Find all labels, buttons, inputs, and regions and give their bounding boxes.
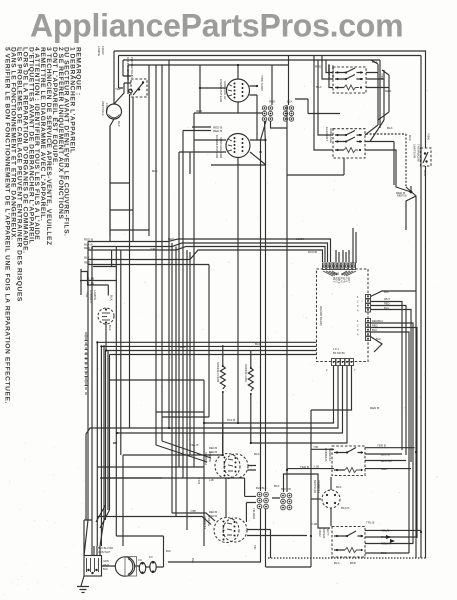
tiny marks above frame [10, 46, 78, 52]
wire box Q right wires [365, 530, 421, 553]
svg-text:YEL/B: YEL/B [381, 529, 390, 533]
svg-text:RED: RED [372, 324, 378, 328]
wire junction X fanout [406, 186, 416, 558]
svg-text:BLK: BLK [384, 290, 389, 294]
wire S2 right wires [250, 140, 266, 165]
svg-text:ELEMENT: ELEMENT [327, 64, 331, 78]
wire bus Y113 to grid TB1 [194, 113, 263, 467]
wire grid TB1 bottom feeds down [261, 121, 271, 491]
svg-text:COMMUTATEUR: COMMUTATEUR [215, 135, 219, 159]
svg-text:BLK: BLK [110, 295, 114, 301]
label M2 vertical [203, 516, 211, 529]
svg-text:1 1B: 1 1B [88, 277, 94, 281]
svg-text:BK RD BU: BK RD BU [333, 351, 345, 355]
wire stubs 1B to door switch [80, 269, 117, 296]
svg-text:Y/BK SURV: Y/BK SURV [260, 75, 264, 91]
wire bus S1 left to vertical [200, 87, 227, 89]
svg-text:TER B: TER B [377, 444, 386, 448]
connector P4 bottom row [332, 359, 354, 366]
svg-text:COMMUT.: COMMUT. [89, 290, 93, 304]
latch switch box O [332, 446, 365, 476]
wire switchbox F right wires [365, 112, 411, 192]
wire lock motor P vertical [330, 477, 332, 526]
svg-text:RED: RED [384, 302, 390, 306]
svg-text:7: 7 [354, 368, 356, 372]
wire bus B3 from terminal T1 [88, 247, 325, 263]
svg-text:RED B: RED B [84, 246, 93, 250]
wire lamp bottom down [110, 119, 114, 236]
connector P3 right column [366, 319, 371, 341]
svg-text:4: 4 [357, 309, 359, 313]
svg-text:BLK: BLK [103, 567, 108, 571]
wire protector verticals down [130, 94, 134, 428]
svg-text:Y/R: Y/R [150, 247, 156, 251]
wire board bottom D4 [251, 366, 347, 443]
junction X node [410, 191, 413, 194]
wire frame left segment to oven lamp [113, 51, 115, 104]
wire top bus N2 [123, 60, 380, 128]
arrow marks bottom right [386, 535, 395, 543]
svg-text:Y/B: Y/B [313, 445, 318, 449]
wire branch to terminal grid TB1 [271, 65, 273, 105]
svg-text:RED: RED [385, 89, 392, 93]
wire board fan feeds [336, 228, 356, 263]
label S2 vertical [213, 126, 223, 160]
terminal grid TB2 [283, 106, 293, 121]
svg-text:FOUR: FOUR [318, 528, 322, 537]
svg-text:FO: FO [149, 555, 153, 559]
svg-text:BLK: BLK [372, 60, 378, 64]
svg-text:BLU: BLU [384, 306, 389, 310]
terminal grid TB1 [262, 106, 272, 121]
svg-text:BLU BU: BLU BU [381, 459, 392, 463]
power connector PE bottom left [84, 556, 102, 577]
svg-text:NETT.: NETT. [326, 528, 330, 537]
wire mid vertical V162 [161, 65, 163, 441]
svg-text:VERROU: VERROU [328, 448, 332, 461]
svg-text:5 VERIFIER LE BON FONCTIONNEM: 5 VERIFIER LE BON FONCTIONNEMENT DE L'AP… [4, 47, 11, 404]
svg-text:RED/W: RED/W [381, 542, 391, 546]
svg-text:FOUR: FOUR [105, 103, 109, 112]
label protector vertical [126, 57, 134, 81]
svg-text:PROTECTEUR: PROTECTEUR [130, 57, 134, 79]
svg-text:3: 3 [357, 304, 359, 308]
svg-text:BLU: BLU [423, 170, 427, 176]
wire S2 bottom long vertical [237, 158, 239, 424]
label motor P [313, 480, 350, 510]
wire horiz y165 under S2 [211, 164, 266, 166]
wire right step to fuse [366, 134, 406, 187]
wire horiz y470 to latch box [284, 469, 335, 528]
wire branch to terminal grid TB2 [288, 56, 290, 106]
svg-text:AMPOULE: AMPOULE [101, 101, 105, 116]
svg-text:2: 2 [357, 300, 359, 304]
label motor cluster [138, 545, 257, 563]
switch box F (broil element relay) [333, 129, 365, 158]
svg-text:CUISSON: CUISSON [331, 65, 335, 79]
wire switchbox E left feeds [322, 56, 333, 88]
door latch switch M1 (dashed circles) [215, 454, 248, 479]
svg-text:ELEMENT: ELEMENT [325, 127, 329, 141]
svg-text:BLK: BLK [408, 135, 412, 141]
wire left verticals to T1 K [106, 126, 121, 536]
label M1 vertical [204, 452, 212, 465]
svg-text:FOUR: FOUR [101, 46, 105, 55]
latch switch box Q [332, 527, 365, 558]
svg-text:LOCK: LOCK [296, 237, 304, 241]
wire mid vertical V156 [155, 65, 157, 445]
svg-text:GRN: GRN [103, 559, 109, 563]
wire resistor R1 leads [123, 345, 223, 546]
infinite switch S2 (rear burner) [226, 134, 250, 158]
infinite switch S1 (front burner) [227, 79, 250, 102]
wire top bus N3 [128, 65, 289, 94]
svg-text:COMMUTATEUR: COMMUTATEUR [219, 79, 223, 103]
label box E vertical [315, 60, 392, 93]
door switch K (dashed circle) [98, 308, 114, 324]
label box F vertical [325, 126, 407, 198]
svg-text:AppliancePartsPros.com: AppliancePartsPros.com [30, 8, 403, 44]
svg-text:2: 2 [326, 368, 328, 372]
note text french remarque (rotated) [4, 47, 82, 404]
svg-text:B1B: B1B [381, 551, 387, 555]
svg-text:SUPER: SUPER [322, 528, 326, 539]
svg-text:YEL: YEL [115, 87, 121, 91]
svg-text:BLK: BLK [255, 342, 261, 346]
door latch switch M2 (dashed circles) [214, 518, 247, 543]
wire left bracket column [85, 332, 87, 395]
label power connector rows [98, 546, 113, 571]
svg-text:RED B: RED B [209, 446, 217, 450]
svg-text:RED B: RED B [209, 514, 217, 518]
wire bus B4 from terminal T1 [88, 250, 323, 262]
convection motor B1 [115, 557, 136, 577]
svg-text:WHT: WHT [103, 563, 109, 567]
wire frame top and right edge L1 [114, 51, 426, 558]
wire TB2 right Z-jog [295, 99, 340, 114]
wire mid vertical V179 [179, 152, 190, 467]
wire board bottom D5 to bottom right [311, 366, 352, 567]
label bus wire tags left [84, 238, 94, 298]
svg-text:RED B: RED B [84, 238, 93, 242]
label P4 pins [326, 347, 356, 372]
svg-text:SURFACE AV: SURFACE AV [223, 81, 227, 100]
svg-text:WHT: WHT [384, 297, 390, 301]
wire left stub y380 [110, 345, 210, 423]
sensor resistor R1 [220, 365, 225, 393]
svg-text:RED B: RED B [396, 191, 405, 195]
svg-text:MOTEUR: MOTEUR [313, 480, 317, 494]
svg-text:BLK: BLK [376, 337, 381, 341]
label P1 pin text block [332, 272, 339, 276]
capacitor C2 oval [150, 561, 156, 572]
wire y175 branch [287, 158, 344, 175]
wire bottom cluster feeds [92, 546, 100, 556]
svg-text:BLK: BLK [166, 549, 171, 553]
label box Q [311, 521, 391, 566]
wire oven lamp jog [114, 83, 131, 104]
svg-text:LAMPE: LAMPE [97, 46, 101, 56]
svg-text:CO: CO [138, 558, 142, 562]
wire bus C4 [110, 355, 317, 511]
wire jog TB1-TB2 [270, 127, 287, 129]
wire top bus N1 [119, 56, 422, 559]
svg-text:BLK: BLK [287, 100, 293, 104]
label S1 vertical [219, 79, 227, 103]
svg-text:o . . e o i: o . . e o i [10, 48, 23, 52]
svg-text:BLK: BLK [108, 325, 112, 331]
wire mid vertical V183 [101, 131, 244, 479]
thermal protector CO1 (dashed box with contacts) [129, 79, 147, 97]
svg-text:BLU: BLU [372, 328, 377, 332]
svg-text:OR 7: OR 7 [347, 277, 350, 283]
wire stub labels S2 upper left [192, 127, 211, 131]
wire latch M1 right to grid [226, 466, 280, 519]
svg-text:RED: RED [381, 467, 388, 471]
wire corner bus drop [93, 250, 116, 267]
wire bus B2 [92, 243, 328, 546]
wire board right P2 wires [371, 291, 417, 462]
svg-text:BLK BLK: BLK BLK [256, 486, 267, 490]
svg-text:BLK: BLK [387, 126, 393, 130]
svg-text:J 88: J 88 [190, 509, 196, 513]
svg-text:BLK BLU RD: BLK BLU RD [98, 546, 113, 550]
svg-text:RED: RED [315, 65, 322, 69]
svg-text:RED: RED [196, 109, 203, 113]
wire latch M2 right [247, 530, 307, 559]
svg-text:BLK: BLK [152, 169, 158, 173]
svg-text:J 1B: J 1B [313, 465, 319, 469]
wire grid G1 left links [245, 478, 256, 522]
svg-text:BLK Y/R: BLK Y/R [281, 487, 291, 491]
wire grid TB2 bottom long vertical [286, 105, 288, 492]
svg-text:Y/R: Y/R [253, 545, 257, 549]
wire frame bottom edge (dotted) [268, 557, 426, 559]
wire bottom-left risers [84, 345, 108, 556]
svg-text:Y/BK: Y/BK [380, 73, 384, 80]
wire mid drop verticals [172, 243, 190, 530]
wire bus B1 [84, 239, 331, 556]
svg-text:L1B: L1B [209, 478, 214, 482]
svg-text:BLK: BLK [180, 345, 186, 349]
wire mid-left horizontals [110, 183, 149, 230]
wire protector left stubs [119, 76, 132, 88]
wire latch box O right wires [311, 448, 415, 469]
svg-text:P10 B: P10 B [227, 418, 235, 422]
wire S1 bottom to bus [237, 102, 239, 113]
connector P2 right column [366, 295, 371, 313]
connector grid G1 bottom [257, 492, 268, 509]
svg-text:1: 1 [357, 295, 359, 299]
svg-text:RED B: RED B [213, 129, 222, 133]
lock motor P (dashed circle) [322, 490, 340, 508]
svg-text:J 1B: J 1B [311, 522, 317, 526]
svg-text:1 8 1: 1 8 1 [333, 347, 339, 351]
svg-text:BLK: BLK [316, 85, 322, 89]
label P3 pins [357, 319, 383, 341]
svg-text:RED B: RED B [370, 406, 379, 410]
label TB1 TB2 [260, 75, 293, 104]
control board U1 (dashed outline) [317, 269, 369, 362]
label board net names vertical [319, 306, 323, 327]
svg-text:BLK: BLK [117, 121, 121, 127]
wire mid vertical V169 [168, 60, 170, 428]
svg-text:VERROU: VERROU [203, 516, 207, 529]
oven lamp DEL1 [107, 104, 122, 119]
svg-text:BLK: BLK [334, 561, 340, 565]
svg-text:GRILLAGE: GRILLAGE [329, 128, 333, 143]
svg-text:B1B: B1B [350, 561, 356, 565]
wire motor chain [102, 566, 164, 567]
label P2 pins [357, 290, 390, 313]
svg-text:4: 4 [357, 333, 359, 337]
svg-text:COMMUT.: COMMUT. [324, 448, 328, 462]
wire resistor R2 leads [250, 350, 252, 443]
svg-text:VERROU: VERROU [204, 452, 208, 465]
label thermal fuse vertical [396, 133, 431, 195]
svg-text:BLK: BLK [274, 484, 280, 488]
svg-text:.:: .: [76, 46, 78, 50]
label R2 vertical [244, 364, 248, 383]
wire bus C3 [106, 351, 317, 521]
label box O [313, 444, 392, 472]
wire branch to switch S1 top [237, 65, 239, 79]
svg-text:SONDE FOUR: SONDE FOUR [216, 362, 220, 383]
svg-text:YEL/RED: YEL/RED [252, 508, 256, 519]
svg-text:BLK: BLK [84, 256, 90, 260]
svg-text:DOOR: DOOR [308, 250, 318, 254]
svg-text:RED/BLC: RED/BLC [372, 319, 383, 323]
svg-text:RED: RED [168, 237, 175, 241]
svg-text:7 8 B: 7 8 B [197, 478, 201, 484]
svg-text:RED: RED [84, 261, 91, 265]
svg-text:THERMIQUE: THERMIQUE [417, 144, 421, 162]
wire board bottom D1 [204, 366, 334, 546]
svg-text:Y/R: Y/R [85, 292, 89, 298]
wire bottom-left diagonals [96, 443, 204, 528]
wire bus C1 [97, 342, 316, 546]
svg-text:BLK: BLK [254, 452, 260, 456]
svg-text:RED B: RED B [209, 450, 217, 454]
svg-text:BLK: BLK [191, 558, 195, 563]
wire branch node to bake switch [199, 65, 201, 113]
wire latch M2 left [97, 513, 215, 525]
svg-text:VERROU: VERROU [317, 480, 321, 493]
svg-text:RED: RED [269, 100, 276, 104]
svg-text:COUPE-CIRCUIT: COUPE-CIRCUIT [126, 57, 130, 81]
wire bus C2 [101, 346, 316, 546]
label oven lamp [101, 101, 121, 127]
svg-text:YEL B: YEL B [190, 443, 198, 447]
svg-text:TRL B: TRL B [366, 521, 374, 525]
wire latch M1 left/top [156, 423, 223, 462]
thermal fuse TCO on frame [421, 148, 432, 166]
wire S2 left wires [190, 140, 226, 174]
svg-text:BLK: BLK [336, 485, 342, 489]
svg-text:TER B: TER B [300, 465, 309, 469]
wire P motor left [311, 498, 321, 500]
wire mid vertical V149 [148, 65, 150, 236]
wire switchbox F left feeds [314, 56, 333, 151]
label G1 G2 [197, 446, 291, 519]
svg-text:GRN WHT: GRN WHT [98, 550, 111, 554]
connector P1 top row [323, 263, 356, 270]
svg-text:RED B: RED B [209, 510, 217, 514]
label door switch [89, 290, 114, 331]
svg-text:1: 1 [357, 319, 359, 323]
svg-text:SURFACE ARR: SURFACE ARR [219, 137, 223, 159]
wire board bottom D2 [86, 366, 338, 520]
ground symbol [77, 576, 89, 593]
label wire tags scattered [97, 46, 379, 513]
switch box E (bake element relay) [333, 67, 366, 93]
wire board bottom D3 [116, 366, 342, 567]
svg-text:BLU B: BLU B [381, 453, 390, 457]
svg-text:LIMITEUR: LIMITEUR [413, 144, 417, 159]
capacitor C1 oval [139, 562, 145, 573]
svg-text:WH/RB BL/RC: WH/RB BL/RC [319, 306, 323, 327]
svg-text:Y/BK: Y/BK [427, 133, 431, 140]
wire S1 right stubs [250, 86, 258, 140]
wire run y264 [88, 265, 209, 346]
svg-text:BLK/X: BLK/X [341, 506, 350, 510]
sensor resistor R2 [248, 367, 253, 395]
svg-text:3: 3 [357, 328, 359, 332]
label R1 vertical [216, 362, 220, 383]
wire grid G1 bottom [168, 509, 311, 567]
connector grid G2 bottom [281, 493, 292, 510]
wire board right P3 wires [371, 323, 418, 553]
svg-text:2: 2 [357, 324, 359, 328]
wire switchbox E right wires [366, 60, 389, 125]
